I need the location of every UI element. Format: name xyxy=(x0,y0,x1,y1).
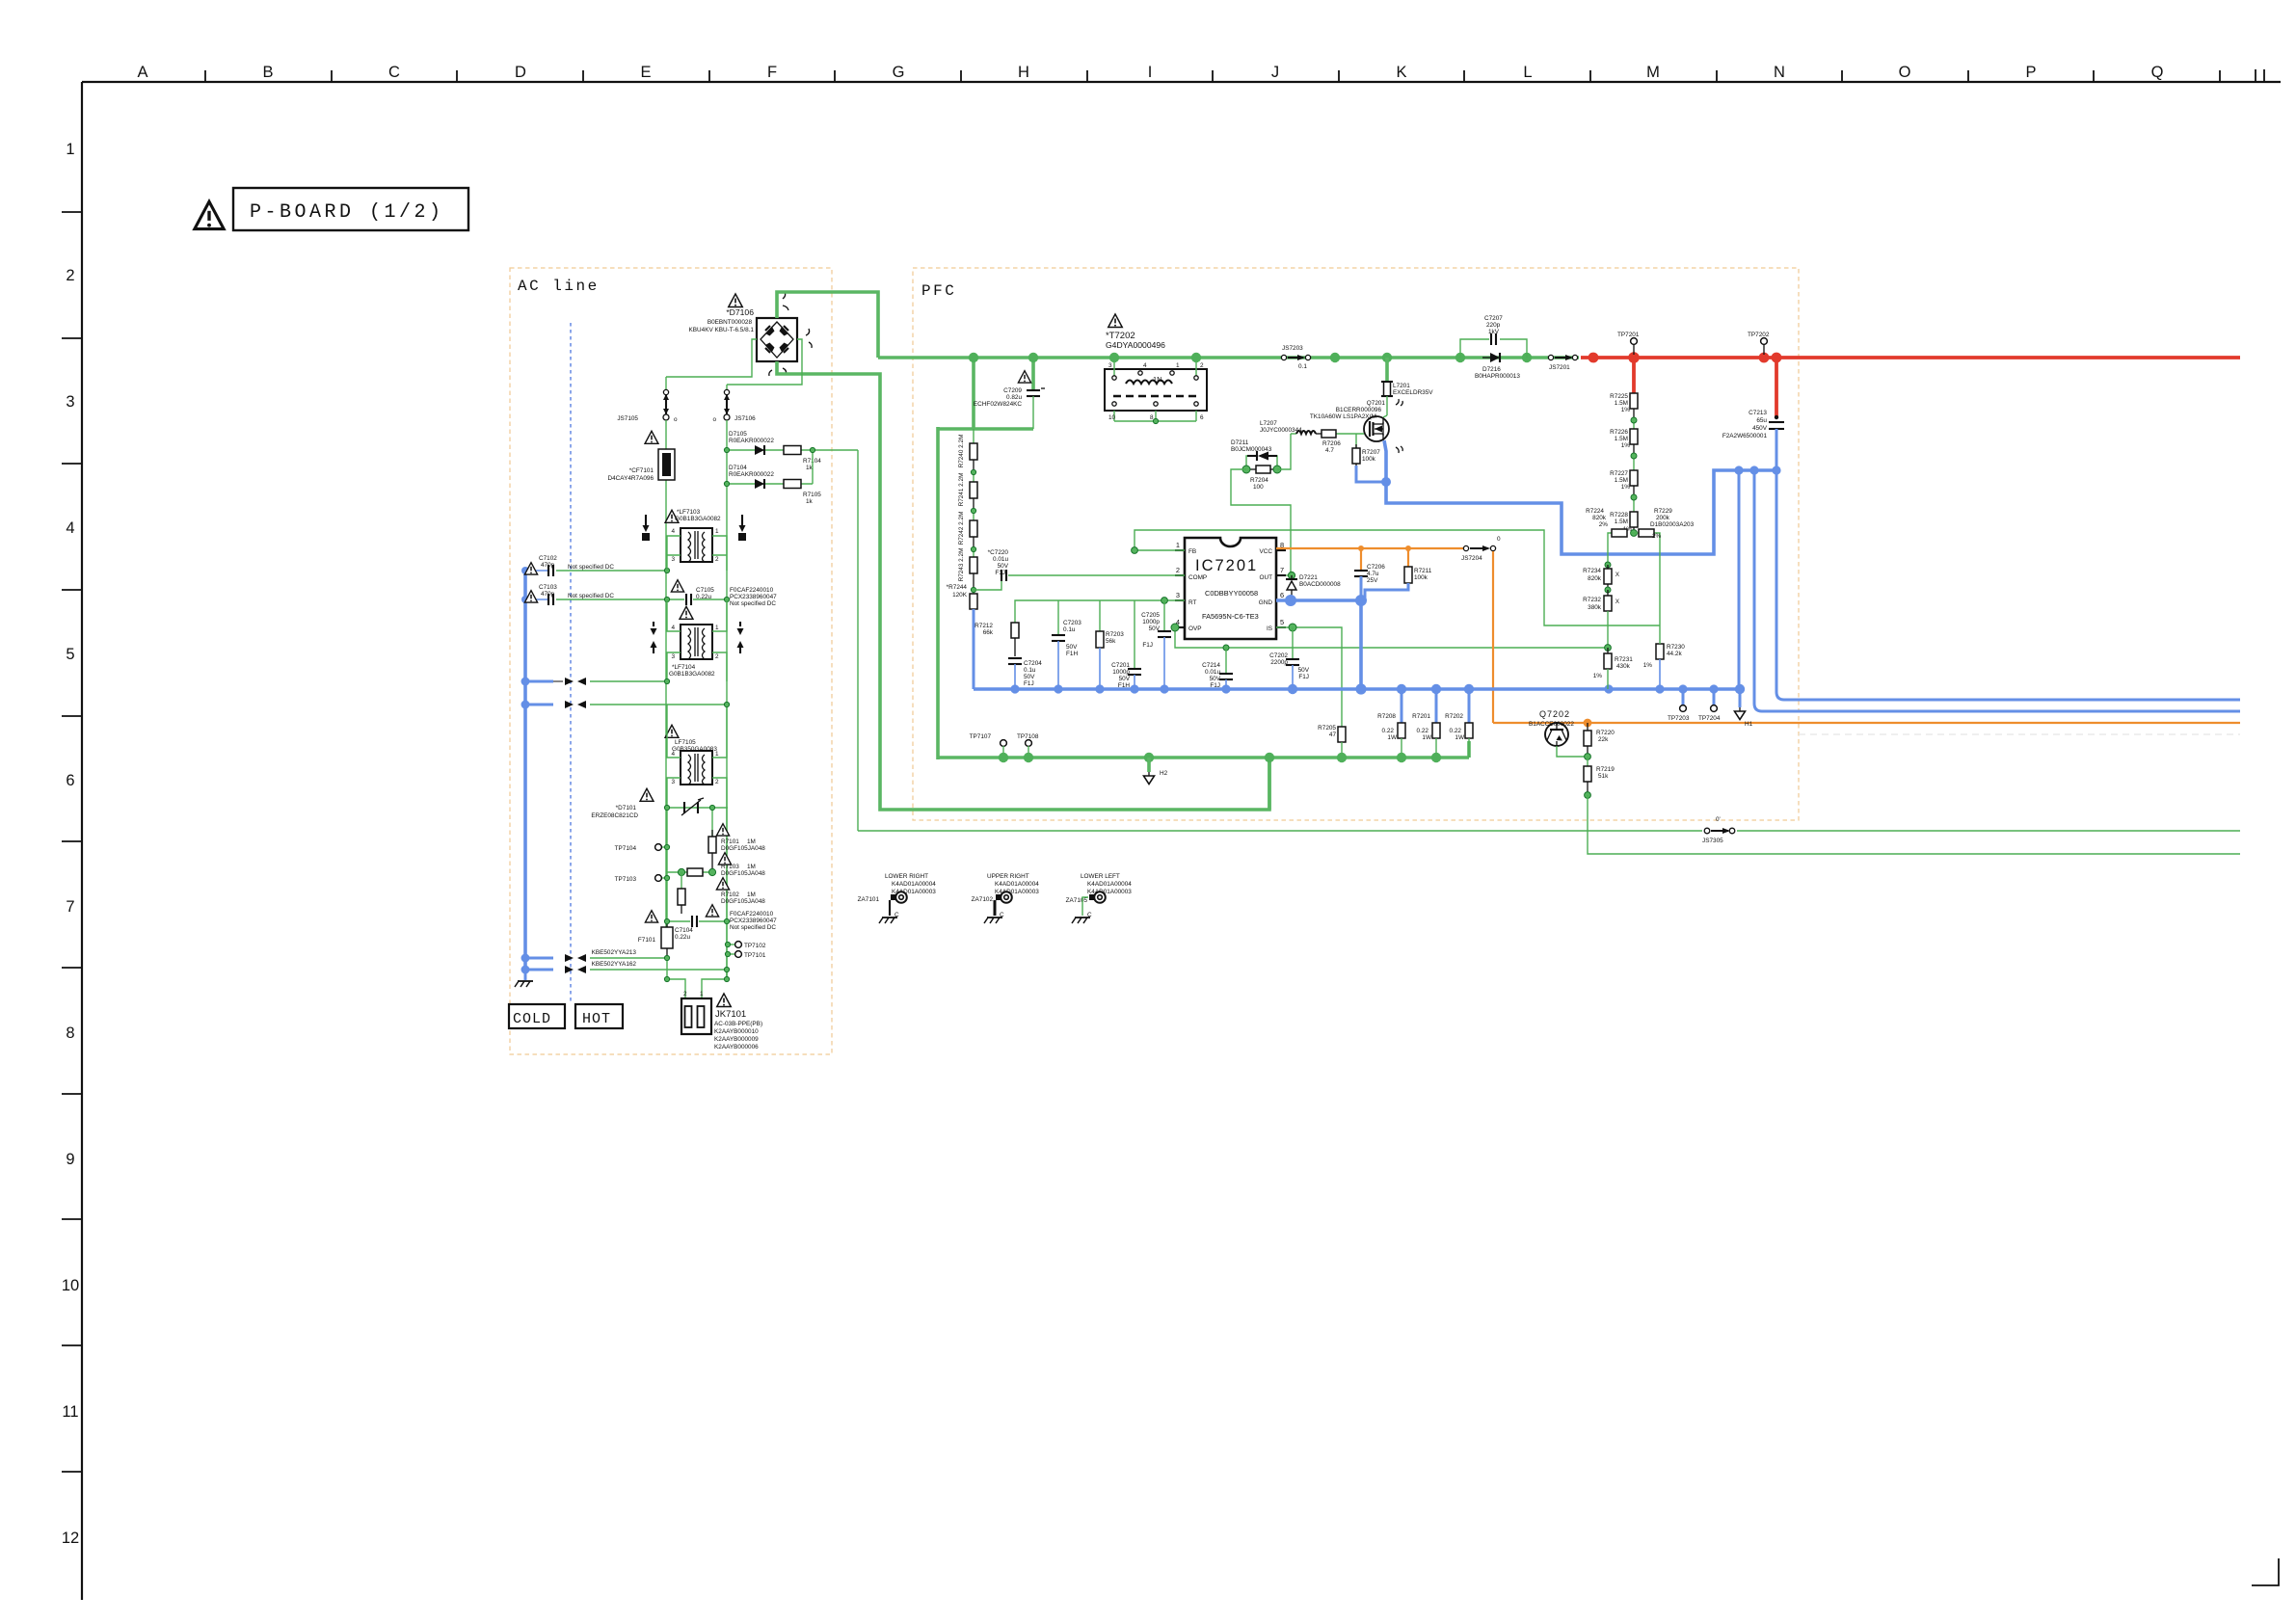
resistor R7204 xyxy=(1250,466,1274,491)
svg-text:VCC: VCC xyxy=(1260,548,1273,555)
diode D7211 xyxy=(1246,451,1277,469)
svg-text:R7226: R7226 xyxy=(1610,429,1628,436)
svg-text:1W: 1W xyxy=(1387,734,1398,741)
svg-text:C: C xyxy=(1000,912,1004,918)
svg-text:o: o xyxy=(712,416,716,423)
svg-text:N: N xyxy=(1774,64,1785,81)
svg-text:R7231: R7231 xyxy=(1615,656,1633,663)
svg-text:65u: 65u xyxy=(1756,417,1767,424)
wire: VCC orange line xyxy=(1276,547,1464,549)
resistor R7234 xyxy=(1604,562,1612,590)
svg-text:R7230: R7230 xyxy=(1667,644,1685,651)
svg-text:50V: 50V xyxy=(1066,644,1078,651)
label LF7105 xyxy=(672,739,717,753)
wire: column A (x691) xyxy=(665,420,667,927)
svg-text:12: 12 xyxy=(62,1530,79,1547)
node OUT pin xyxy=(1288,572,1295,578)
wire: column A lower (x692) xyxy=(666,808,668,927)
svg-text:AC line: AC line xyxy=(518,278,600,295)
label CF7101 xyxy=(608,467,654,482)
wire: OUT pin to gate driver xyxy=(1276,574,1292,576)
svg-text:JS7305: JS7305 xyxy=(1702,838,1723,844)
svg-text:F1J: F1J xyxy=(995,570,1005,576)
svg-text:B0JCM000043: B0JCM000043 xyxy=(1231,446,1272,453)
title box P-BOARD (1/2) xyxy=(233,188,468,230)
svg-text:LOWER RIGHT: LOWER RIGHT xyxy=(885,873,928,880)
wire: LF7103 connections xyxy=(667,536,727,571)
svg-text:F1J: F1J xyxy=(1142,642,1153,649)
resistor R7212 xyxy=(974,623,1019,656)
wire: LF7104 connections xyxy=(667,599,727,681)
resistor R7220 xyxy=(1584,723,1615,757)
svg-text:50V: 50V xyxy=(1298,667,1310,674)
resistor R7207 xyxy=(1352,434,1380,466)
svg-text:50V: 50V xyxy=(1210,676,1221,682)
svg-text:470p: 470p xyxy=(541,562,555,569)
svg-text:C7207: C7207 xyxy=(1484,315,1503,322)
svg-text:C7204: C7204 xyxy=(1024,660,1042,667)
column ruler letters xyxy=(137,64,2163,81)
wire: interlock row y994 xyxy=(590,957,667,959)
gate network nodes xyxy=(1242,466,1281,473)
ground H1 xyxy=(1735,689,1753,728)
svg-text:X: X xyxy=(1615,572,1620,578)
wire: interlock row y1006 xyxy=(590,969,727,971)
svg-text:5: 5 xyxy=(1280,618,1284,626)
wire: blue interlock stub y731 xyxy=(525,704,553,706)
jumper JS7305 xyxy=(1702,816,1735,844)
wire: MOSFET source blue xyxy=(1384,440,1776,554)
svg-text:1: 1 xyxy=(715,528,719,535)
svg-text:0.1u: 0.1u xyxy=(1063,626,1076,633)
svg-text:C7206: C7206 xyxy=(1367,564,1385,571)
wire: blue output rail lower xyxy=(1754,470,2240,711)
resistor R7202 xyxy=(1445,689,1473,758)
svg-text:D0GF105JA048: D0GF105JA048 xyxy=(721,898,765,905)
svg-text:B0ACD000008: B0ACD000008 xyxy=(1299,581,1341,588)
svg-text:J: J xyxy=(1271,64,1279,81)
jumper JS7105 xyxy=(617,377,678,423)
svg-text:2: 2 xyxy=(1200,362,1204,369)
svg-text:Not specified DC: Not specified DC xyxy=(730,600,776,607)
svg-text:R7211: R7211 xyxy=(1414,568,1432,574)
svg-text:66k: 66k xyxy=(983,629,994,636)
svg-text:A: A xyxy=(137,64,147,81)
svg-text:KBE502YYA162: KBE502YYA162 xyxy=(592,961,637,968)
svg-text:ZA7102: ZA7102 xyxy=(972,896,994,903)
svg-text:R7205: R7205 xyxy=(1318,725,1336,732)
svg-text:0.22u: 0.22u xyxy=(696,594,711,600)
svg-text:10: 10 xyxy=(1108,414,1116,421)
svg-text:*R7244: *R7244 xyxy=(947,584,968,591)
svg-text:100: 100 xyxy=(1253,484,1264,491)
resistor R7206 xyxy=(1322,430,1341,454)
svg-text:120K: 120K xyxy=(952,592,968,599)
svg-text:Not specified DC: Not specified DC xyxy=(568,593,614,599)
svg-text:10: 10 xyxy=(62,1277,79,1294)
svg-text:I: I xyxy=(1148,64,1153,81)
svg-text:TP7102: TP7102 xyxy=(744,943,766,949)
svg-text:4.7: 4.7 xyxy=(1325,447,1334,454)
svg-text:R7208: R7208 xyxy=(1377,713,1396,720)
svg-text:3: 3 xyxy=(671,556,675,563)
svg-text:R7232: R7232 xyxy=(1583,597,1601,603)
svg-text:UPPER RIGHT: UPPER RIGHT xyxy=(987,873,1029,880)
svg-text:1M: 1M xyxy=(747,838,756,845)
svg-text:B0EBNT000028: B0EBNT000028 xyxy=(707,319,753,326)
wire: blue output rail upper xyxy=(1776,470,2240,700)
svg-text:AC-03B-PPE(PB): AC-03B-PPE(PB) xyxy=(714,1021,762,1027)
inductor L7201 xyxy=(1381,358,1393,415)
capacitor C7204 xyxy=(1008,658,1022,689)
svg-text:2: 2 xyxy=(66,267,74,284)
junction dots red bus xyxy=(1589,352,1782,363)
resistor R7231 xyxy=(1604,645,1612,689)
capacitor C7104 row xyxy=(667,916,728,927)
svg-text:1%: 1% xyxy=(1593,673,1603,679)
svg-text:L7201: L7201 xyxy=(1393,383,1410,389)
svg-text:F0CAF2240010: F0CAF2240010 xyxy=(730,587,774,594)
svg-text:C: C xyxy=(894,912,899,918)
svg-text:D7104: D7104 xyxy=(729,465,747,471)
junction dots on main bus xyxy=(969,353,1532,362)
svg-text:FB: FB xyxy=(1188,548,1196,555)
svg-text:O: O xyxy=(1899,64,1911,81)
wire: thick green drop x973 to output bus xyxy=(936,427,940,759)
svg-text:0.82u: 0.82u xyxy=(1006,394,1022,401)
connector ZA7105 xyxy=(1066,873,1133,923)
svg-text:C7205: C7205 xyxy=(1141,612,1160,619)
svg-text:KBU4KV KBU-T-6.5/8.1: KBU4KV KBU-T-6.5/8.1 xyxy=(689,327,755,333)
column ruler ticks xyxy=(205,69,2264,82)
svg-text:0: 0 xyxy=(1497,536,1501,543)
svg-text:IC7201: IC7201 xyxy=(1195,557,1258,574)
svg-text:1: 1 xyxy=(66,141,74,158)
svg-text:5: 5 xyxy=(66,646,74,663)
resistor R7208 xyxy=(1377,689,1405,758)
test point TP7107 xyxy=(970,733,1007,758)
svg-text:TP7108: TP7108 xyxy=(1017,733,1039,740)
wire: feeds to JK7101 xyxy=(667,958,727,998)
resistor R7203 xyxy=(1096,600,1124,689)
inductor L7207 + gate network xyxy=(1291,431,1322,434)
svg-text:22k: 22k xyxy=(1598,736,1609,743)
warning triangle (title) xyxy=(195,201,224,228)
svg-text:0': 0' xyxy=(1716,816,1721,823)
border frame left line xyxy=(81,82,83,1600)
label Q7202 xyxy=(1529,709,1574,728)
test point TP7202 xyxy=(1748,332,1770,355)
resistor R7226 xyxy=(1630,420,1638,456)
svg-text:G0B1B3GA0082: G0B1B3GA0082 xyxy=(669,671,715,678)
test point TP7104 xyxy=(615,844,667,852)
svg-text:o: o xyxy=(674,416,678,423)
svg-text:1: 1 xyxy=(700,991,704,998)
label D7105 xyxy=(729,431,821,471)
svg-text:L: L xyxy=(1523,64,1532,81)
svg-text:1%: 1% xyxy=(1621,484,1631,491)
svg-text:1%: 1% xyxy=(1643,662,1653,669)
warning triangle (T7202) xyxy=(1108,314,1122,328)
wire: interlock row y707 xyxy=(590,680,667,682)
svg-text:1W: 1W xyxy=(1422,734,1432,741)
capacitor C7203 xyxy=(1052,600,1065,689)
resistor R7224 xyxy=(1608,529,1634,565)
svg-text:0.1: 0.1 xyxy=(1298,363,1307,370)
node dots AC rows xyxy=(664,447,814,601)
wire: LF7105 connections xyxy=(667,705,727,808)
svg-text:R0EAKR000022: R0EAKR000022 xyxy=(729,471,774,478)
svg-text:4: 4 xyxy=(671,528,675,535)
wire: column B (x754) xyxy=(726,420,728,979)
wire: blue interlock stub y994 xyxy=(525,957,553,960)
svg-text:G0B1B3GA0082: G0B1B3GA0082 xyxy=(675,516,721,522)
svg-text:D7221: D7221 xyxy=(1299,574,1318,581)
wire: bridge bottom to return path (thick green) xyxy=(777,361,1269,810)
svg-text:1%: 1% xyxy=(1621,407,1631,413)
svg-text:*LF7104: *LF7104 xyxy=(672,664,696,671)
transformer LF7105 xyxy=(671,751,719,785)
svg-text:3: 3 xyxy=(671,653,675,660)
test point TP7203 xyxy=(1668,689,1690,722)
junction dots blue bus xyxy=(1010,683,1745,694)
orange node dot xyxy=(1584,719,1592,728)
junction dots blue source path xyxy=(1381,466,1781,487)
chain node dots x1010 xyxy=(971,469,975,592)
svg-text:6: 6 xyxy=(1280,591,1284,599)
wire: thick green drop x1072 (C7209) xyxy=(1031,358,1035,389)
wire: green aux rail (upper, via JS7305) xyxy=(858,830,2240,832)
IC7201 xyxy=(1175,538,1286,639)
svg-text:2200p: 2200p xyxy=(1270,659,1288,666)
svg-text:R7229: R7229 xyxy=(1654,508,1672,515)
svg-text:ERZE08C821CD: ERZE08C821CD xyxy=(591,812,638,819)
svg-text:4: 4 xyxy=(1143,362,1147,369)
warning triangle (CF7101) xyxy=(645,431,658,443)
svg-text:EXCELDR35V: EXCELDR35V xyxy=(1393,389,1433,396)
svg-text:D7211: D7211 xyxy=(1231,439,1249,446)
svg-text:COMP: COMP xyxy=(1188,574,1207,581)
svg-text:0.22: 0.22 xyxy=(1450,728,1462,734)
svg-text:2: 2 xyxy=(683,991,687,998)
svg-text:R7241 2.2M: R7241 2.2M xyxy=(958,473,965,507)
row ruler numbers xyxy=(62,141,79,1547)
svg-text:R7243 2.2M: R7243 2.2M xyxy=(958,548,965,582)
svg-text:K4AD01A00004: K4AD01A00004 xyxy=(1087,881,1132,888)
test point TP7101 xyxy=(728,951,766,959)
svg-text:44.2k: 44.2k xyxy=(1667,651,1682,657)
svg-text:KBE502YYA213: KBE502YYA213 xyxy=(592,949,637,956)
wire: gate net link xyxy=(1231,434,1291,575)
svg-text:B0HAPR000013: B0HAPR000013 xyxy=(1475,373,1520,380)
jumper JS7203 xyxy=(1281,345,1310,370)
svg-text:1M: 1M xyxy=(747,864,756,870)
svg-text:50V: 50V xyxy=(998,563,1009,570)
svg-text:25V: 25V xyxy=(1367,577,1378,584)
jumper JS7201 xyxy=(1548,355,1577,371)
svg-text:11: 11 xyxy=(62,1403,78,1421)
wire: D7105 output to lower rail xyxy=(857,450,859,831)
svg-text:1.5M: 1.5M xyxy=(1615,477,1628,484)
svg-text:E: E xyxy=(640,64,651,81)
wire: thick return y840 riser xyxy=(1268,759,1271,810)
svg-text:ZA7105: ZA7105 xyxy=(1066,897,1088,904)
svg-text:R0EAKR000022: R0EAKR000022 xyxy=(729,438,774,444)
border frame top line xyxy=(82,81,2281,83)
svg-text:Q: Q xyxy=(2151,64,2164,81)
svg-text:820k: 820k xyxy=(1588,575,1602,582)
svg-text:H2: H2 xyxy=(1160,770,1168,777)
svg-text:200k: 200k xyxy=(1656,515,1670,521)
junction dots GND xyxy=(1285,595,1367,606)
node OVP pin xyxy=(1171,624,1179,631)
svg-text:1000p: 1000p xyxy=(1142,619,1160,625)
MOSFET Q7201 xyxy=(1364,416,1389,441)
svg-text:R7240 2.2M: R7240 2.2M xyxy=(958,435,965,468)
svg-text:3: 3 xyxy=(66,393,74,411)
faint dashed DC rail marker xyxy=(1799,733,2240,735)
svg-text:*D7101: *D7101 xyxy=(616,805,637,811)
svg-text:P: P xyxy=(2025,64,2036,81)
svg-text:D: D xyxy=(515,64,526,81)
warning triangle (D7106) xyxy=(729,294,742,307)
warning triangle (LF7103) xyxy=(665,510,679,522)
label D7101 xyxy=(591,805,638,819)
svg-text:0.22u: 0.22u xyxy=(675,934,690,941)
svg-text:1.5M: 1.5M xyxy=(1615,519,1628,525)
wire: IS line xyxy=(1276,627,1342,727)
svg-text:F0CAF2240010: F0CAF2240010 xyxy=(730,911,774,918)
svg-text:4: 4 xyxy=(66,519,74,537)
node below R7219 xyxy=(1585,792,1591,799)
svg-text:380k: 380k xyxy=(1588,604,1602,611)
svg-text:1: 1 xyxy=(1176,362,1180,369)
svg-text:3: 3 xyxy=(1176,591,1180,599)
zener D7221 xyxy=(1286,574,1341,600)
svg-text:PCX2338960047: PCX2338960047 xyxy=(730,594,777,600)
transformer LF7104 xyxy=(671,625,719,660)
svg-text:LOWER LEFT: LOWER LEFT xyxy=(1081,873,1120,880)
wire: blue stub row C7103 xyxy=(525,599,548,600)
svg-text:R7212: R7212 xyxy=(974,623,993,629)
svg-text:3: 3 xyxy=(671,779,675,785)
svg-text:G4DYA0000496: G4DYA0000496 xyxy=(1106,340,1165,350)
svg-text:R7234: R7234 xyxy=(1583,568,1601,574)
AC line section box xyxy=(510,268,832,1054)
svg-text:1N: 1N xyxy=(1153,375,1161,384)
svg-text:B1ACCE000022: B1ACCE000022 xyxy=(1529,721,1574,728)
label LF7103 xyxy=(675,509,721,522)
core arrows LF7104 xyxy=(651,622,744,653)
svg-text:TP7204: TP7204 xyxy=(1698,715,1721,722)
wire: green drop to aux rail xyxy=(1588,795,2240,854)
svg-text:*D7106: *D7106 xyxy=(726,307,754,317)
jumper JS7106 xyxy=(712,385,756,423)
svg-text:B: B xyxy=(262,64,273,81)
svg-text:JS7201: JS7201 xyxy=(1549,364,1570,371)
svg-text:D0GF105JA048: D0GF105JA048 xyxy=(721,870,765,877)
svg-text:TP7107: TP7107 xyxy=(970,733,992,740)
fuse CF7101 xyxy=(658,449,675,480)
svg-text:TP7203: TP7203 xyxy=(1668,715,1690,722)
varistor D7101 xyxy=(667,798,728,815)
PFC section box xyxy=(913,268,1799,820)
svg-text:450V: 450V xyxy=(1752,425,1768,432)
resistor R7101 xyxy=(708,808,716,872)
svg-text:C: C xyxy=(388,64,400,81)
capacitor C7103 row xyxy=(548,594,667,605)
jumper JS7204 xyxy=(1461,536,1501,562)
label D7106 xyxy=(689,307,755,333)
svg-text:*C7220: *C7220 xyxy=(988,549,1009,556)
svg-text:ECHF02W824KC: ECHF02W824KC xyxy=(974,401,1022,408)
svg-text:OUT: OUT xyxy=(1260,574,1273,581)
svg-text:C7214: C7214 xyxy=(1202,662,1220,669)
svg-text:C: C xyxy=(1087,912,1092,918)
capacitor C7209 xyxy=(1027,388,1045,429)
svg-text:430k: 430k xyxy=(1616,663,1631,670)
svg-text:1.5M: 1.5M xyxy=(1615,436,1628,442)
capacitor C7214 xyxy=(1219,645,1233,689)
svg-text:1000p: 1000p xyxy=(1112,669,1130,676)
svg-text:F1J: F1J xyxy=(1298,674,1309,680)
svg-text:4.7u: 4.7u xyxy=(1367,571,1379,577)
squiggle marks near bridge xyxy=(783,292,788,310)
svg-text:JS7204: JS7204 xyxy=(1461,555,1482,562)
svg-text:PFC: PFC xyxy=(921,282,956,300)
wire: main blue bus (PFC GND) xyxy=(974,687,1740,691)
wire: orange drop and H-rail xyxy=(1493,551,2240,723)
svg-text:2: 2 xyxy=(715,653,719,660)
ground H2 xyxy=(1144,758,1168,785)
svg-text:1k: 1k xyxy=(806,498,814,505)
svg-text:G0B350GA0083: G0B350GA0083 xyxy=(672,746,717,753)
svg-text:K2AAYB000006: K2AAYB000006 xyxy=(714,1044,759,1051)
test point TP7204 xyxy=(1698,689,1721,722)
svg-text:JK7101: JK7101 xyxy=(715,1009,746,1020)
transistor Q7202 xyxy=(1545,723,1568,746)
svg-text:TK10A60W LS1PA2X(M: TK10A60W LS1PA2X(M xyxy=(1310,413,1376,420)
svg-text:0.01u: 0.01u xyxy=(993,556,1008,563)
core arrows LF7103 xyxy=(642,515,746,541)
resistor R7228 xyxy=(1630,497,1638,533)
svg-text:C7103: C7103 xyxy=(539,584,557,591)
svg-text:470p: 470p xyxy=(541,591,555,598)
wire: blue drop to bus end xyxy=(1738,470,1741,689)
svg-text:B1CERR000096: B1CERR000096 xyxy=(1336,407,1382,413)
wire: OVP line xyxy=(1175,627,1608,648)
blue isolation dashed line xyxy=(570,323,572,1002)
svg-text:Not specified DC: Not specified DC xyxy=(730,924,776,931)
svg-text:1%: 1% xyxy=(1621,442,1631,449)
svg-text:D1B02003A203: D1B02003A203 xyxy=(1650,521,1695,528)
svg-text:X: X xyxy=(1615,599,1620,605)
wire: COMP line xyxy=(974,575,1185,590)
svg-text:1W: 1W xyxy=(1455,734,1465,741)
svg-text:C7201: C7201 xyxy=(1111,662,1130,669)
svg-text:JS7105: JS7105 xyxy=(617,415,638,422)
chassis ground (cold) xyxy=(524,971,527,980)
svg-text:R7220: R7220 xyxy=(1596,730,1615,736)
junction dots on cold bus xyxy=(521,567,530,974)
svg-text:Q7201: Q7201 xyxy=(1367,400,1386,407)
svg-text:K4AD01A00004: K4AD01A00004 xyxy=(892,881,936,888)
svg-text:R7203: R7203 xyxy=(1106,631,1124,638)
wire: green output bus y786 xyxy=(938,741,1469,758)
svg-text:LF7105: LF7105 xyxy=(675,739,696,746)
svg-text:51k: 51k xyxy=(1598,773,1609,780)
capacitor C7207 bypass loop xyxy=(1460,339,1527,358)
